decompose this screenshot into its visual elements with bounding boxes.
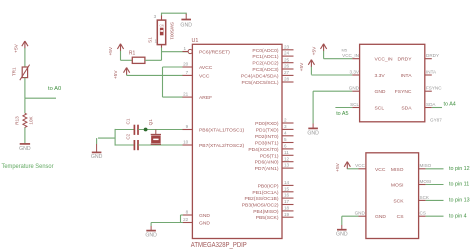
svg-text:GND: GND (19, 146, 31, 152)
svg-text:22: 22 (183, 217, 189, 222)
svg-text:9: 9 (186, 124, 189, 129)
pin 20 AVCC (183, 66, 193, 68)
svg-text:to A0: to A0 (48, 86, 61, 92)
svg-text:16: 16 (284, 193, 290, 198)
power +5V (SD VCC) (344, 162, 347, 167)
svg-text:1: 1 (154, 38, 157, 43)
ground GND (crystal caps) (98, 137, 115, 139)
svg-text:GND: GND (375, 214, 386, 220)
svg-text:ATMEGA328P_PDIP: ATMEGA328P_PDIP (191, 242, 247, 249)
svg-text:12: 12 (284, 156, 290, 161)
svg-text:PC1(ADC1): PC1(ADC1) (252, 54, 278, 60)
svg-text:SDA: SDA (401, 106, 412, 112)
pin VCC_IN (GY87 left) (352, 58, 359, 60)
wire +5V to 3.3V pin (311, 74, 352, 76)
svg-text:VCC: VCC (355, 163, 365, 168)
svg-text:PD3(INT1): PD3(INT1) (255, 141, 279, 147)
wire +5V to R1 (121, 59, 133, 61)
svg-text:+5V: +5V (14, 43, 20, 52)
wire XTAL2 right (138, 144, 183, 146)
svg-text:SCL: SCL (375, 106, 385, 112)
wire VCC rail vertical (162, 67, 164, 97)
wire node A0 to R13 (24, 98, 26, 113)
svg-text:MISO: MISO (391, 167, 404, 173)
svg-text:SCK: SCK (393, 198, 404, 204)
ground GND (GY87) (312, 124, 314, 129)
wire TR1 to node A0 (24, 78, 26, 99)
pin MISO (SD right) (419, 168, 426, 170)
pin 17 PB3(MOSI/OC2) (282, 204, 294, 206)
svg-text:SCL: SCL (350, 102, 359, 107)
svg-text:26: 26 (284, 64, 290, 69)
svg-text:FSYNC: FSYNC (426, 86, 442, 91)
pin 28 PC5(ADC5/SCL) (282, 81, 294, 83)
pin 6 PD4(XCK/T0) (282, 148, 294, 150)
power +5V (VCC) (124, 68, 127, 73)
wire +5V to VCC pin (127, 74, 183, 76)
svg-text:CS: CS (397, 214, 405, 220)
pin 2 PD0(RXD) (282, 122, 294, 124)
wire XTAL2 left (115, 144, 134, 146)
svg-text:to pin 12: to pin 12 (449, 166, 470, 172)
svg-text:R1: R1 (129, 51, 136, 57)
power +5V (GY87 VCC_IN) (321, 44, 324, 49)
pin 3.3V (GY87 left) (352, 74, 359, 76)
wire reset node to pin1 (162, 51, 189, 53)
svg-text:20: 20 (183, 61, 189, 66)
capacitor C1 (133, 125, 135, 135)
wire cap rail (114, 129, 116, 146)
svg-text:10K: 10K (29, 115, 34, 124)
svg-text:5: 5 (284, 137, 287, 142)
pin FSYNC (GY87 right) (425, 90, 432, 92)
wire XTAL1 left (115, 129, 134, 131)
svg-text:GND: GND (145, 233, 157, 239)
svg-text:PD6(AIN0): PD6(AIN0) (255, 160, 279, 166)
pin 18 PB4(MISO) (282, 210, 294, 212)
svg-text:PC4(ADC4/SDA): PC4(ADC4/SDA) (241, 73, 279, 79)
pin SDA (GY87 right) (425, 107, 432, 109)
switch S1 SW5001 (157, 20, 165, 44)
svg-text:23: 23 (284, 44, 290, 49)
pin 8 GND (183, 214, 193, 216)
svg-text:PD7(AIN1): PD7(AIN1) (255, 166, 279, 172)
pin 13 PD7(AIN1) (282, 167, 294, 169)
ground GND (IC) (150, 223, 152, 227)
pin CS (SD right) (419, 215, 426, 217)
svg-text:SCK: SCK (420, 195, 430, 200)
svg-text:4: 4 (284, 130, 287, 135)
svg-text:PB0(ICP): PB0(ICP) (258, 183, 279, 189)
pin 11 PD5(T1) (282, 154, 294, 156)
svg-text:PD5(T1): PD5(T1) (260, 153, 279, 159)
junction on XTAL1 net (144, 128, 148, 132)
op IC U1 ATMEGA328P box (192, 44, 282, 238)
svg-text:VCC: VCC (375, 167, 386, 173)
pin 3 PD1(TXD) (282, 128, 294, 130)
svg-text:Q1: Q1 (148, 119, 153, 126)
svg-text:VCC: VCC (199, 73, 210, 79)
svg-text:PC6(/RESET): PC6(/RESET) (199, 50, 230, 56)
svg-text:27: 27 (284, 70, 290, 75)
svg-text:+5V: +5V (312, 46, 318, 55)
svg-text:to pin 4: to pin 4 (449, 213, 467, 219)
pin 9 PB6(XTAL1/TOSC1) (183, 129, 193, 131)
svg-text:AVCC: AVCC (199, 65, 213, 71)
svg-text:28: 28 (284, 77, 290, 82)
svg-text:INTA: INTA (401, 73, 413, 79)
pin 27 PC4(ADC4/SDA) (282, 74, 294, 76)
svg-text:PB2(SS/OC1B): PB2(SS/OC1B) (244, 196, 278, 202)
pin 24 PC1(ADC1) (282, 55, 294, 57)
svg-text:PD0(RXD): PD0(RXD) (255, 121, 279, 127)
svg-text:7: 7 (186, 70, 189, 75)
wire +5V to VCC_IN (324, 58, 353, 60)
pin SCL (GY87 left) (352, 107, 359, 109)
svg-text:+5V: +5V (108, 46, 114, 55)
svg-text:GND: GND (336, 232, 348, 238)
wire S1 to reset node (161, 48, 163, 61)
svg-text:21: 21 (183, 92, 189, 97)
svg-text:PB3(MOSI/OC2): PB3(MOSI/OC2) (242, 203, 279, 209)
svg-text:18: 18 (284, 206, 290, 211)
svg-text:25: 25 (284, 57, 290, 62)
wire SCL stub (335, 107, 352, 109)
pin 1 PC6(/RESET) (183, 51, 189, 53)
pin 25 PC2(ADC2) (282, 62, 294, 64)
svg-text:DRDY: DRDY (398, 57, 413, 63)
svg-text:GND: GND (199, 213, 210, 219)
svg-text:3: 3 (154, 14, 157, 19)
thermistor TR1 (22, 67, 27, 78)
svg-text:C2: C2 (125, 133, 130, 139)
pin GND (GY87 left) (352, 90, 359, 92)
svg-text:1: 1 (183, 46, 186, 51)
svg-text:2: 2 (284, 118, 287, 123)
wire GND GY87 (313, 90, 352, 92)
svg-text:ON: ON (159, 23, 164, 27)
wire R13 to ground (24, 128, 26, 144)
svg-text:15: 15 (284, 186, 290, 191)
wire S1 to ground (162, 13, 187, 15)
pin 19 PB5(SCK) (282, 216, 294, 218)
svg-text:TR1: TR1 (12, 67, 17, 76)
svg-text:PD1(TXD): PD1(TXD) (256, 127, 279, 133)
svg-text:to A4: to A4 (444, 102, 456, 108)
svg-text:+5V: +5V (335, 162, 341, 171)
svg-text:SW5001: SW5001 (169, 22, 174, 40)
svg-text:17: 17 (284, 199, 290, 204)
svg-text:PB7(XTAL2/TOSC2): PB7(XTAL2/TOSC2) (199, 143, 244, 149)
svg-text:+5V: +5V (299, 62, 305, 71)
svg-text:PB6(XTAL1/TOSC1): PB6(XTAL1/TOSC1) (199, 128, 244, 134)
pin 12 PD6(AIN0) (282, 161, 294, 163)
svg-text:6: 6 (284, 144, 287, 149)
svg-text:DRDY: DRDY (426, 53, 439, 58)
svg-text:to pin 13: to pin 13 (449, 198, 470, 204)
svg-text:S1: S1 (147, 37, 152, 43)
svg-text:FSYNC: FSYNC (395, 89, 412, 95)
svg-text:PC5(ADC5/SCL): PC5(ADC5/SCL) (241, 80, 278, 86)
ground GND (reset switch) (185, 14, 187, 20)
svg-text:GND: GND (91, 154, 103, 160)
svg-text:PD4(XCK/T0): PD4(XCK/T0) (248, 147, 279, 153)
ground GND (temperature sensor) (20, 143, 30, 145)
wire XTAL1 right (138, 129, 183, 131)
resistor R13 10K (23, 113, 27, 127)
svg-text:13: 13 (284, 163, 290, 168)
wire R1 to reset node (145, 59, 162, 61)
svg-text:PB1(OC1A): PB1(OC1A) (252, 190, 278, 196)
pin 5 PD3(INT1) (282, 142, 294, 144)
svg-text:AREF: AREF (199, 95, 212, 101)
pin VCC (SD left) (359, 168, 366, 170)
svg-text:VCC_IN: VCC_IN (342, 53, 359, 58)
pin INTA (GY87 right) (425, 74, 432, 76)
svg-text:19: 19 (284, 212, 290, 217)
pin 7 VCC (183, 74, 193, 76)
pin SCK (SD right) (419, 199, 426, 201)
svg-text:PC3(ADC3): PC3(ADC3) (252, 67, 278, 73)
svg-text:3.3V: 3.3V (350, 69, 360, 74)
resistor R1 (132, 57, 145, 63)
pin 16 PB2(SS/OC1B) (282, 197, 294, 199)
svg-text:MISO: MISO (420, 163, 432, 168)
svg-text:GND: GND (199, 221, 210, 227)
capacitor C2 (133, 140, 135, 150)
ground GND (SD) (341, 225, 343, 230)
pin 10 PB7(XTAL2/TOSC2) (183, 144, 193, 146)
svg-text:GND: GND (349, 86, 360, 91)
pin 22 GND (183, 222, 193, 224)
pin 15 PB1(OC1A) (282, 191, 294, 193)
svg-text:14: 14 (284, 180, 290, 185)
svg-text:GND: GND (355, 211, 366, 216)
wire node A0 horizontal (25, 97, 56, 99)
pin 26 PC3(ADC3) (282, 68, 294, 70)
svg-text:+5V: +5V (113, 70, 119, 79)
svg-text:24: 24 (284, 51, 290, 56)
svg-text:M5: M5 (342, 47, 348, 52)
pin MOSI (SD right) (419, 184, 426, 186)
pin 23 PC0(ADC0) (282, 49, 294, 51)
svg-text:Temperature Sensor: Temperature Sensor (2, 163, 55, 170)
wire SD GND (342, 215, 359, 217)
svg-text:PB5(SCK): PB5(SCK) (256, 215, 279, 221)
svg-text:GND: GND (307, 131, 319, 137)
svg-text:VCC_IN: VCC_IN (375, 57, 394, 63)
crystal Q1 (155, 130, 157, 135)
svg-text:PB4(MISO): PB4(MISO) (253, 209, 279, 215)
svg-text:GND: GND (375, 89, 386, 95)
svg-text:3: 3 (284, 124, 287, 129)
svg-text:8: 8 (186, 209, 189, 214)
wire rail to AREF (163, 96, 184, 98)
svg-text:to pin 11: to pin 11 (449, 182, 469, 188)
wire GND pins join (181, 214, 184, 216)
svg-text:R13: R13 (15, 116, 20, 125)
svg-text:GY87: GY87 (430, 117, 442, 122)
wire rail to AVCC (163, 66, 184, 68)
svg-text:CS: CS (420, 211, 426, 216)
svg-text:SDA: SDA (426, 102, 436, 107)
pin GND (SD left) (359, 215, 366, 217)
svg-text:PC2(ADC2): PC2(ADC2) (252, 61, 278, 67)
svg-text:10: 10 (183, 139, 189, 144)
wire +5V to SD VCC (347, 168, 358, 170)
power +5V (reset pullup) (117, 44, 120, 49)
svg-text:MOSI: MOSI (391, 183, 404, 189)
svg-text:INTA: INTA (426, 69, 437, 74)
svg-text:to A5: to A5 (336, 111, 348, 117)
pin 4 PD2(INT0) (282, 135, 294, 137)
wire SDA stub (432, 107, 442, 109)
svg-text:GND: GND (180, 22, 192, 28)
pin DRDY (GY87 right) (425, 58, 432, 60)
pin 21 AREF (183, 96, 193, 98)
svg-text:MOSI: MOSI (420, 179, 432, 184)
module SD card box (366, 153, 419, 239)
power +5V (GY87 3.3V) (308, 60, 311, 65)
module U5 GY87 box (360, 44, 425, 122)
pin 14 PB0(ICP) (282, 184, 294, 186)
svg-text:PD2(INT0): PD2(INT0) (255, 134, 279, 140)
svg-text:C1: C1 (125, 118, 130, 124)
svg-text:U1: U1 (192, 38, 199, 44)
power +5V (thermistor supply) (22, 41, 25, 46)
svg-text:11: 11 (284, 150, 289, 155)
svg-text:3.3V: 3.3V (375, 73, 386, 79)
svg-text:PC0(ADC0): PC0(ADC0) (252, 48, 278, 54)
